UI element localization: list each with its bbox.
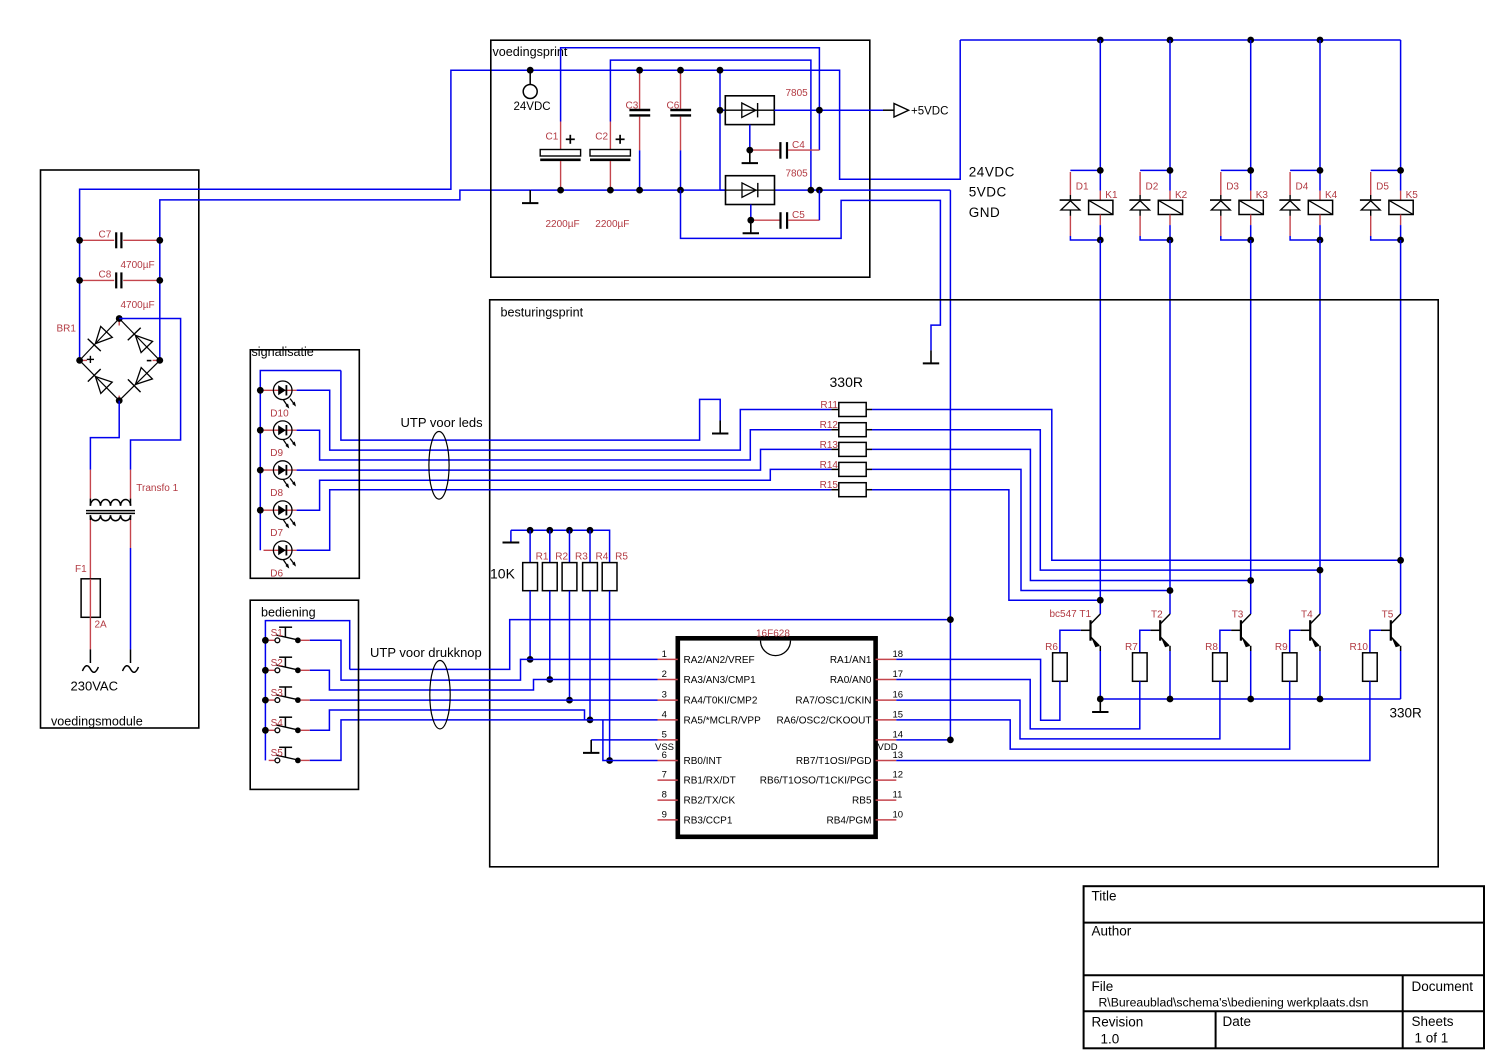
svg-text:C5: C5 — [792, 210, 805, 221]
wire R10 to pin13 — [896, 681, 1370, 760]
svg-text:5: 5 — [662, 729, 667, 740]
svg-text:8: 8 — [662, 790, 667, 801]
capacitor C1 — [540, 122, 580, 231]
LED D6 — [264, 541, 297, 579]
wire 10K bus — [511, 530, 610, 562]
frame voedingsmodule — [41, 170, 199, 728]
svg-text:C2: C2 — [595, 132, 608, 143]
svg-text:S2: S2 — [271, 658, 284, 669]
pin 11 — [852, 790, 902, 807]
wire pin4 row to pin6 — [603, 720, 658, 761]
svg-text:BR1: BR1 — [57, 324, 77, 335]
svg-text:RB0/INT: RB0/INT — [684, 756, 722, 767]
wire R4 to pin — [589, 591, 591, 720]
label Sheets — [1412, 1014, 1454, 1029]
pin 4 — [658, 709, 762, 726]
junction 7805b output b — [816, 187, 823, 194]
junction BR1 left — [76, 357, 83, 364]
svg-text:C1: C1 — [546, 132, 559, 143]
label signalisatie — [252, 345, 314, 359]
label Author — [1092, 924, 1132, 939]
svg-text:bediening: bediening — [261, 606, 316, 620]
wire R11 to T5 collector — [872, 410, 1401, 561]
capacitor C3 — [626, 70, 651, 190]
resistor R6 — [1045, 642, 1067, 681]
wire relay K2 feed — [1169, 40, 1171, 170]
svg-text:17: 17 — [893, 669, 904, 680]
resistor R14 — [820, 460, 872, 477]
junction LED bus D7 — [257, 507, 264, 514]
svg-text:7805: 7805 — [786, 88, 809, 99]
wire D10 to R11 — [297, 390, 832, 450]
wire R8 to pin16 — [896, 681, 1220, 739]
capacitor C4 — [750, 125, 820, 159]
svg-text:R13: R13 — [820, 440, 839, 451]
svg-text:K2: K2 — [1175, 190, 1188, 201]
junction emitter T2 — [1167, 696, 1174, 703]
resistor R10 — [1350, 642, 1378, 681]
svg-text:1: 1 — [662, 649, 667, 660]
LED D8 — [264, 461, 297, 499]
svg-text:Date: Date — [1223, 1014, 1252, 1029]
label 5VDC rail — [969, 185, 1007, 200]
svg-text:T5: T5 — [1382, 610, 1394, 621]
resistor R3 — [562, 530, 588, 590]
svg-text:S3: S3 — [271, 688, 284, 699]
diode D5 — [1360, 172, 1389, 236]
svg-text:D8: D8 — [270, 488, 283, 499]
label Document — [1412, 979, 1474, 994]
junction 5V rail tap — [947, 616, 954, 623]
wire D9 to R12 — [297, 430, 832, 460]
svg-text:C6: C6 — [667, 101, 680, 112]
wire LED bus — [260, 371, 341, 551]
junction BR1 right — [156, 357, 163, 364]
label 330R lower — [1390, 706, 1423, 721]
junction C5 ground — [747, 217, 754, 224]
connector 230VAC — [71, 649, 139, 693]
relay K2 — [1158, 170, 1187, 240]
junction switch bus S2 — [262, 667, 269, 674]
svg-text:24VDC: 24VDC — [969, 165, 1015, 180]
label VDD — [878, 742, 898, 753]
junction K4 bottom — [1317, 237, 1324, 244]
regulator 7805 lower — [720, 169, 808, 205]
wire D1 bottom link — [1070, 236, 1100, 240]
relay K4 — [1308, 170, 1337, 240]
svg-text:230VAC: 230VAC — [71, 679, 118, 694]
svg-text:11: 11 — [893, 790, 903, 801]
junction R2 pin row — [546, 676, 553, 683]
junction C8 right — [156, 277, 163, 284]
svg-text:10K: 10K — [490, 566, 516, 582]
svg-text:330R: 330R — [1390, 706, 1423, 721]
junction top bus K2 — [1167, 37, 1174, 44]
svg-text:voedingsprint: voedingsprint — [493, 45, 568, 59]
resistor R7 — [1125, 642, 1147, 681]
resistor R8 — [1205, 642, 1227, 681]
pin 7 — [658, 770, 736, 787]
transistor T4 — [1300, 610, 1320, 700]
wire D4 top link — [1290, 169, 1320, 171]
wire K1 to T1 collector — [1099, 240, 1101, 614]
wire R7 to pin17 — [896, 680, 1140, 729]
ground symbol VSS — [583, 740, 599, 753]
junction R5 pin row — [606, 757, 613, 764]
svg-text:R3: R3 — [575, 552, 588, 563]
pin 15 — [776, 709, 903, 726]
label Date — [1223, 1014, 1252, 1029]
svg-text:S4: S4 — [271, 718, 284, 729]
wire D4 bottom link — [1290, 236, 1320, 240]
svg-text:D6: D6 — [270, 568, 283, 579]
junction VDD 5V rail — [947, 737, 954, 744]
svg-text:330R: 330R — [830, 374, 863, 390]
svg-text:1 of 1: 1 of 1 — [1415, 1031, 1449, 1046]
wire D1 top link — [1070, 169, 1100, 171]
port +5VDC — [894, 104, 948, 118]
wire transformer right to connector — [130, 520, 132, 649]
pin 10 — [826, 809, 903, 826]
label besturingsprint — [501, 306, 584, 320]
resistor R5 — [602, 552, 628, 591]
junction K1 bottom — [1097, 237, 1104, 244]
svg-text:S1: S1 — [271, 628, 284, 639]
ground symbol besturingsprint top — [923, 350, 939, 363]
svg-text:24VDC: 24VDC — [514, 101, 551, 113]
svg-text:R\Bureaublad\schema's\bedienin: R\Bureaublad\schema's\bediening werkplaa… — [1099, 996, 1369, 1010]
label 10K — [490, 566, 516, 582]
svg-text:UTP voor leds: UTP voor leds — [401, 415, 484, 430]
label GND rail — [969, 205, 1001, 220]
junction emitter T3 — [1247, 696, 1254, 703]
junction ground bus C3 — [636, 187, 643, 194]
svg-text:Sheets: Sheets — [1412, 1014, 1454, 1029]
LED D9 — [264, 421, 297, 459]
wire R1 to pin — [529, 591, 531, 660]
junction LED bus D10 — [257, 387, 264, 394]
label 330R upper — [830, 374, 863, 390]
transistor T1 — [1050, 609, 1101, 699]
junction BR1 top — [116, 315, 123, 322]
svg-text:4: 4 — [662, 709, 667, 720]
svg-text:RA1/AN1: RA1/AN1 — [830, 655, 872, 666]
svg-text:GND: GND — [969, 205, 1001, 220]
capacitor C2 — [590, 122, 630, 231]
svg-text:16: 16 — [893, 690, 904, 701]
svg-text:RB4/PGM: RB4/PGM — [826, 816, 871, 827]
pin 8 — [658, 790, 736, 807]
junction R3 pin row — [566, 697, 573, 704]
svg-text:T4: T4 — [1301, 610, 1313, 621]
svg-text:4700µF: 4700µF — [121, 260, 155, 271]
frame signalisatie — [250, 350, 359, 579]
pin 14 — [876, 729, 903, 740]
svg-text:2A: 2A — [95, 620, 108, 631]
svg-text:RB2/TX/CK: RB2/TX/CK — [684, 796, 736, 807]
svg-text:T3: T3 — [1232, 610, 1244, 621]
svg-text:T2: T2 — [1151, 610, 1163, 621]
bridge rectifier BR1 — [57, 319, 160, 401]
svg-text:2200µF: 2200µF — [546, 219, 580, 230]
svg-text:D2: D2 — [1146, 182, 1159, 193]
LED D7 — [264, 501, 297, 539]
svg-text:D1: D1 — [1076, 182, 1089, 193]
svg-text:S5: S5 — [271, 748, 284, 759]
wire T3 base — [1220, 630, 1231, 653]
transistor T2 — [1150, 610, 1170, 700]
wire relay K3 feed — [1250, 40, 1252, 170]
svg-text:RB1/RX/DT: RB1/RX/DT — [684, 776, 736, 787]
svg-text:R15: R15 — [820, 480, 839, 491]
pin 13 — [796, 750, 903, 767]
wire D7 to R14 — [297, 469, 832, 510]
junction ground bus C1 — [557, 187, 564, 194]
junction 10K bus R4 — [587, 527, 594, 534]
pin 2 — [658, 669, 757, 686]
svg-text:K1: K1 — [1105, 190, 1118, 201]
svg-text:D4: D4 — [1296, 182, 1309, 193]
junction C7 right — [156, 237, 163, 244]
junction K3 bottom — [1247, 237, 1254, 244]
junction collector T2 — [1167, 587, 1174, 594]
resistor R9 — [1275, 642, 1297, 681]
svg-text:+5VDC: +5VDC — [911, 105, 948, 117]
label bediening — [261, 606, 316, 620]
switch S3 — [269, 687, 310, 703]
pin 18 — [830, 649, 903, 666]
wire BR1 plus to 24VDC bus — [80, 40, 961, 360]
transistor T5 — [1381, 610, 1401, 700]
LED D10 — [264, 381, 297, 419]
wire R13 to T3 collector — [872, 449, 1251, 580]
label voedingsprint — [493, 45, 568, 59]
capacitor C7 — [80, 230, 160, 272]
svg-text:R11: R11 — [820, 400, 838, 411]
wire R15 to T1 collector — [872, 490, 1100, 601]
svg-text:RA3/AN3/CMP1: RA3/AN3/CMP1 — [684, 675, 757, 686]
wire emitter bus — [1100, 698, 1400, 700]
label sheets value — [1415, 1031, 1449, 1046]
wire K2 to T2 collector — [1169, 240, 1171, 614]
wire C2 top to 5V rail — [610, 60, 811, 190]
svg-text:RB6/T1OSO/T1CKI/PGC: RB6/T1OSO/T1CKI/PGC — [760, 776, 872, 787]
relay K3 — [1239, 170, 1268, 240]
svg-text:7: 7 — [662, 770, 667, 781]
svg-text:K3: K3 — [1256, 190, 1269, 201]
svg-text:C3: C3 — [626, 101, 639, 112]
junction ground bus C6 — [677, 187, 684, 194]
frame bediening — [250, 600, 358, 789]
junction 24VDC bus — [527, 67, 534, 74]
wire T5 base — [1370, 630, 1381, 653]
svg-text:Revision: Revision — [1092, 1015, 1144, 1030]
junction K2 bottom — [1167, 237, 1174, 244]
wire T1 base — [1060, 630, 1081, 653]
wire D5 bottom link — [1371, 236, 1401, 240]
svg-text:D7: D7 — [270, 528, 283, 539]
resistor R2 — [542, 530, 568, 590]
junction LED bus D9 — [257, 427, 264, 434]
wire R6 to pin18 — [896, 659, 1060, 720]
junction C7 left — [76, 237, 83, 244]
label file path — [1099, 996, 1369, 1010]
svg-text:R7: R7 — [1125, 642, 1138, 653]
junction top bus K4 — [1317, 37, 1324, 44]
capacitor C8 — [80, 270, 160, 312]
ground symbol C5 — [743, 220, 759, 233]
svg-text:RA5/*MCLR/VPP: RA5/*MCLR/VPP — [684, 716, 762, 727]
junction K4 top — [1317, 167, 1324, 174]
switch S4 — [269, 717, 310, 733]
junction switch bus S3 — [262, 697, 269, 704]
label VSS — [655, 742, 674, 753]
cable UTP drukknop — [430, 661, 450, 729]
junction collector T4 — [1317, 567, 1324, 574]
wire relay K1 feed — [1099, 40, 1101, 170]
svg-text:R1: R1 — [536, 552, 549, 563]
svg-text:D5: D5 — [1376, 182, 1389, 193]
junction 5V output C1C4 — [816, 107, 823, 114]
svg-text:Title: Title — [1092, 889, 1117, 904]
svg-text:RA2/AN2/VREF: RA2/AN2/VREF — [684, 655, 755, 666]
junction 10K bus R1 — [527, 527, 534, 534]
label 16F628 — [756, 629, 790, 640]
switch S2 — [269, 657, 310, 673]
junction ground bus C2 — [607, 187, 614, 194]
svg-text:RA7/OSC1/CKIN: RA7/OSC1/CKIN — [795, 696, 871, 707]
label revision value — [1101, 1032, 1120, 1047]
junction C8 left — [76, 277, 83, 284]
wire R14 to T2 collector — [872, 469, 1170, 590]
pin 5 — [658, 729, 678, 740]
svg-text:R10: R10 — [1350, 642, 1369, 653]
svg-text:File: File — [1092, 979, 1114, 994]
pin 1 — [658, 649, 755, 666]
junction 10K bus R2 — [546, 527, 553, 534]
transistor T3 — [1231, 610, 1251, 700]
svg-text:D3: D3 — [1226, 182, 1239, 193]
svg-text:R12: R12 — [820, 420, 839, 431]
label Title — [1092, 889, 1117, 904]
wire D8 to R13 — [297, 449, 832, 470]
junction K1 top — [1097, 167, 1104, 174]
relay K1 — [1089, 170, 1118, 240]
pin 12 — [760, 770, 903, 787]
svg-text:D10: D10 — [270, 408, 289, 419]
capacitor C5 — [751, 190, 820, 229]
resistor R15 — [820, 480, 872, 497]
wire 5VDC output — [774, 109, 894, 111]
svg-text:Author: Author — [1092, 924, 1132, 939]
ground symbol 10K bus — [503, 530, 520, 542]
svg-text:2200µF: 2200µF — [595, 219, 629, 230]
capacitor C6 — [667, 70, 692, 190]
svg-text:C4: C4 — [792, 140, 805, 151]
svg-text:14: 14 — [893, 729, 904, 740]
wire R3 to pin — [569, 591, 571, 700]
svg-text:R9: R9 — [1275, 642, 1288, 653]
svg-text:7805: 7805 — [786, 169, 809, 180]
switch S1 — [269, 627, 310, 643]
wire S4 to pin4 — [310, 710, 585, 730]
svg-text:RA4/T0KI/CMP2: RA4/T0KI/CMP2 — [684, 696, 758, 707]
wire D5 top link — [1371, 169, 1401, 171]
cable UTP leds — [429, 432, 449, 500]
switch S5 — [269, 747, 310, 763]
junction collector T3 — [1247, 577, 1254, 584]
svg-text:2: 2 — [662, 669, 667, 680]
junction emitter T1 — [1097, 696, 1104, 703]
fuse F1 — [75, 520, 107, 649]
wire R2 to pin — [549, 591, 551, 680]
svg-text:voedingsmodule: voedingsmodule — [51, 715, 143, 729]
wire T2 base — [1140, 630, 1151, 653]
svg-text:9: 9 — [662, 809, 667, 820]
svg-text:UTP voor drukknop: UTP voor drukknop — [370, 645, 482, 660]
wire T4 base — [1290, 630, 1301, 653]
junction BR1 bottom — [116, 397, 123, 404]
svg-text:VSS: VSS — [655, 742, 674, 753]
junction R1 pin row — [527, 656, 534, 663]
wire S2 to pin2 — [310, 670, 658, 690]
svg-text:18: 18 — [893, 649, 904, 660]
wire relay K4 feed — [1319, 40, 1321, 170]
wire 24VDC top bus — [960, 39, 1400, 41]
svg-text:3: 3 — [662, 690, 667, 701]
junction 7805b output a — [808, 187, 815, 194]
svg-text:R2: R2 — [555, 552, 568, 563]
ground symbol C4 — [742, 150, 758, 163]
wire S3 to pin3 — [310, 699, 658, 701]
wire D2 bottom link — [1140, 236, 1170, 240]
junction C4 ground — [746, 147, 753, 154]
svg-text:R5: R5 — [615, 552, 628, 563]
wire S5 to pin4 row — [310, 720, 658, 761]
ground symbol voedingsprint — [522, 190, 538, 203]
junction 10K bus R3 — [566, 527, 573, 534]
label UTP voor drukknop — [370, 645, 482, 660]
svg-text:K4: K4 — [1325, 190, 1338, 201]
pin 17 — [830, 669, 903, 686]
wire D3 bottom link — [1221, 236, 1251, 240]
connector 24VDC — [514, 70, 551, 113]
svg-text:RA0/AN0: RA0/AN0 — [830, 675, 872, 686]
label File — [1092, 979, 1114, 994]
ground symbol emitter bus — [1092, 699, 1108, 712]
diode D4 — [1279, 172, 1308, 236]
IC 16F628 body — [678, 638, 876, 837]
svg-text:F1: F1 — [75, 564, 87, 575]
svg-text:K5: K5 — [1406, 190, 1419, 201]
svg-text:RB5: RB5 — [852, 796, 872, 807]
svg-text:C8: C8 — [99, 270, 112, 281]
diode D3 — [1210, 172, 1239, 236]
regulator 7805 upper — [720, 88, 808, 125]
junction R4 pin row — [587, 717, 594, 724]
junction switch bus S4 — [262, 727, 269, 734]
diode D1 — [1060, 172, 1089, 236]
wire S1 to pin1 — [310, 640, 658, 680]
wire BR1 minus to ground bus — [160, 190, 530, 360]
pin 6 — [658, 750, 722, 767]
resistor R13 — [820, 440, 872, 457]
svg-text:Transfo 1: Transfo 1 — [136, 483, 178, 494]
svg-text:besturingsprint: besturingsprint — [501, 306, 584, 320]
wire K3 to T3 collector — [1250, 240, 1252, 614]
wire D6 to R15 — [297, 490, 832, 551]
label 24VDC rail — [969, 165, 1015, 180]
